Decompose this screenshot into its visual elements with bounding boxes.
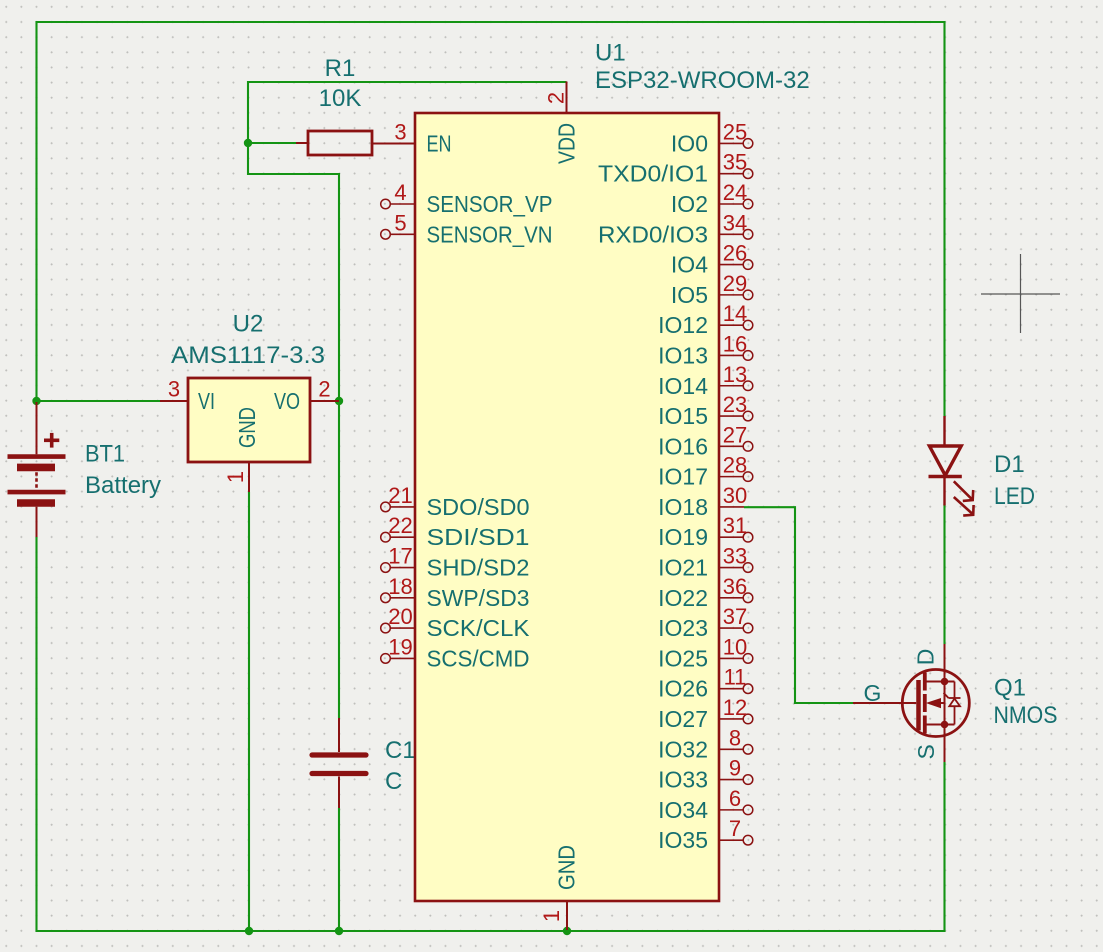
wire right rail to LED anode	[943, 21, 945, 416]
svg-text:10K: 10K	[319, 85, 362, 112]
svg-text:EN: EN	[427, 130, 452, 156]
svg-text:29: 29	[723, 271, 747, 296]
svg-text:VO: VO	[274, 388, 300, 414]
svg-text:IO16: IO16	[658, 433, 708, 459]
svg-text:VI: VI	[198, 388, 215, 414]
wire BT1- to bottom rail	[35, 537, 37, 932]
transistor Q1 NMOS	[853, 644, 969, 762]
svg-text:IO4: IO4	[671, 252, 708, 278]
junction VO node	[335, 397, 343, 405]
svg-text:SWP/SD3: SWP/SD3	[427, 585, 530, 611]
svg-text:IO23: IO23	[658, 615, 708, 641]
wire R1 to VDD (top)	[248, 82, 567, 144]
svg-text:IO2: IO2	[671, 191, 708, 217]
svg-text:12: 12	[723, 695, 747, 720]
svg-text:3: 3	[168, 377, 180, 402]
U1 pin 14 IO12	[658, 301, 753, 338]
svg-text:NMOS: NMOS	[994, 702, 1058, 729]
svg-text:10: 10	[723, 634, 747, 659]
U1 pin 23 IO15	[658, 392, 753, 429]
U1 pin 31 IO19	[658, 513, 753, 550]
svg-text:IO26: IO26	[658, 676, 708, 702]
U1 pin 17 SHD/SD2	[381, 544, 530, 581]
junction BT1+/VI	[32, 397, 40, 405]
ESP32 U1 body	[415, 113, 719, 901]
svg-text:Battery: Battery	[85, 472, 161, 499]
svg-text:18: 18	[388, 574, 412, 599]
svg-text:36: 36	[723, 574, 747, 599]
svg-text:IO17: IO17	[658, 464, 708, 490]
U1 pin 12 IO27	[658, 695, 753, 732]
svg-text:26: 26	[723, 241, 747, 266]
svg-text:19: 19	[388, 634, 412, 659]
svg-text:IO13: IO13	[658, 342, 708, 368]
junction C1 at bottom rail	[335, 927, 343, 935]
svg-text:IO14: IO14	[658, 373, 708, 399]
svg-text:2: 2	[544, 92, 569, 104]
svg-text:Q1: Q1	[994, 674, 1026, 701]
svg-text:24: 24	[723, 180, 747, 205]
svg-text:16: 16	[723, 331, 747, 356]
svg-text:1: 1	[539, 910, 564, 922]
U2 pin 2 VO	[274, 377, 339, 414]
svg-text:IO0: IO0	[671, 130, 708, 156]
svg-text:6: 6	[729, 786, 741, 811]
wire U2 GND to bottom rail	[248, 492, 250, 932]
wire bottom rail	[36, 930, 946, 932]
svg-text:D: D	[913, 649, 939, 666]
svg-text:35: 35	[723, 150, 747, 175]
wire R1 node to U2 VO node	[248, 143, 339, 402]
svg-text:1: 1	[223, 471, 248, 483]
svg-text:SDI/SD1: SDI/SD1	[427, 524, 530, 550]
U1 pin 28 IO17	[658, 453, 753, 490]
svg-text:31: 31	[723, 513, 747, 538]
wire NMOS source to bottom rail	[943, 762, 945, 932]
U1 pin 5 SENSOR_VN	[381, 210, 553, 247]
svg-text:SENSOR_VP: SENSOR_VP	[427, 191, 553, 217]
svg-text:G: G	[864, 680, 882, 706]
svg-text:ESP32-WROOM-32: ESP32-WROOM-32	[595, 67, 810, 94]
U1 pin 16 IO13	[658, 331, 753, 368]
svg-text:33: 33	[723, 544, 747, 569]
U1 pin 19 SCS/CMD	[381, 634, 530, 671]
U1 pin 6 IO34	[658, 786, 753, 823]
svg-text:SCS/CMD: SCS/CMD	[427, 645, 530, 671]
svg-text:RXD0/IO3: RXD0/IO3	[598, 221, 708, 247]
wire LED cathode to NMOS drain	[943, 504, 945, 644]
wire BT1+ to U2 VI	[37, 400, 161, 402]
svg-text:3: 3	[394, 119, 406, 144]
U1 pin 13 IO14	[658, 362, 753, 399]
U1 pin 25 IO0	[671, 119, 753, 156]
junction U2 GND at bottom rail	[245, 927, 253, 935]
svg-text:5: 5	[394, 210, 406, 235]
svg-text:SENSOR_VN: SENSOR_VN	[427, 221, 553, 247]
svg-text:34: 34	[723, 210, 747, 235]
svg-text:IO15: IO15	[658, 403, 708, 429]
svg-text:BT1: BT1	[85, 441, 125, 468]
U1 pin 10 IO25	[658, 634, 753, 671]
svg-text:IO22: IO22	[658, 585, 708, 611]
U1 pin 20 SCK/CLK	[381, 604, 530, 641]
regulator U2 body	[188, 378, 310, 462]
capacitor C1	[312, 718, 366, 808]
U1 pin 34 RXD0/IO3	[598, 210, 753, 247]
svg-text:21: 21	[388, 483, 412, 508]
svg-text:20: 20	[388, 604, 412, 629]
svg-text:17: 17	[388, 544, 412, 569]
U1 pin 27 IO16	[658, 422, 753, 459]
U1 pin 21 SDO/SD0	[381, 483, 530, 520]
svg-text:IO32: IO32	[658, 736, 708, 762]
svg-text:IO12: IO12	[658, 312, 708, 338]
battery BT1	[8, 402, 66, 537]
svg-text:VDD: VDD	[554, 123, 580, 164]
svg-text:IO35: IO35	[658, 827, 708, 853]
svg-text:22: 22	[388, 513, 412, 538]
U1 pin 7 IO35	[658, 816, 753, 853]
svg-text:SHD/SD2: SHD/SD2	[427, 555, 530, 581]
svg-text:U2: U2	[233, 311, 264, 338]
U2 pin 1 GND	[223, 407, 260, 492]
svg-text:S: S	[913, 744, 939, 759]
svg-text:IO5: IO5	[671, 282, 708, 308]
U1 pin 24 IO2	[671, 180, 753, 217]
U1 pin 35 TXD0/IO1	[598, 150, 753, 187]
U1 pin 30 IO18	[658, 483, 747, 520]
svg-text:D1: D1	[994, 451, 1025, 478]
svg-text:27: 27	[723, 422, 747, 447]
U1 pin 26 IO4	[671, 241, 753, 278]
U1 pin 37 IO23	[658, 604, 753, 641]
svg-text:GND: GND	[554, 845, 580, 890]
svg-text:30: 30	[723, 483, 747, 508]
LED D1	[929, 416, 974, 516]
U1 pin 36 IO22	[658, 574, 753, 611]
svg-text:7: 7	[729, 816, 741, 841]
svg-text:IO21: IO21	[658, 555, 708, 581]
svg-text:SDO/SD0: SDO/SD0	[427, 494, 530, 520]
svg-text:AMS1117-3.3: AMS1117-3.3	[171, 342, 325, 369]
U1 pin 3 EN	[394, 119, 451, 156]
svg-text:IO25: IO25	[658, 645, 708, 671]
svg-text:9: 9	[729, 756, 741, 781]
svg-text:28: 28	[723, 453, 747, 478]
U1 pin 1 GND (bottom)	[539, 845, 580, 930]
svg-text:IO34: IO34	[658, 797, 708, 823]
svg-text:23: 23	[723, 392, 747, 417]
U1 pin 18 SWP/SD3	[381, 574, 530, 611]
svg-text:37: 37	[723, 604, 747, 629]
svg-text:8: 8	[729, 725, 741, 750]
svg-text:IO19: IO19	[658, 524, 708, 550]
U1 pin 4 SENSOR_VP	[381, 180, 553, 217]
svg-text:11: 11	[724, 665, 747, 690]
U1 pin 8 IO32	[658, 725, 753, 762]
U1 pin 29 IO5	[671, 271, 753, 308]
svg-text:C: C	[385, 768, 402, 795]
svg-text:IO18: IO18	[658, 494, 708, 520]
U1 pin 11 IO26	[658, 665, 753, 702]
U1 pin 33 IO21	[658, 544, 753, 581]
svg-text:14: 14	[723, 301, 747, 326]
U1 pin 2 VDD (top)	[544, 82, 580, 165]
crosshair marker	[981, 254, 1060, 333]
wire U2 VO to C1 top	[338, 401, 340, 718]
wire R1 left lead net	[248, 142, 296, 144]
svg-text:4: 4	[394, 180, 406, 205]
wire left rail (BT1+ to top)	[35, 21, 37, 402]
wire C1 bottom to bottom rail	[338, 808, 340, 932]
svg-text:IO33: IO33	[658, 767, 708, 793]
U2 pin 3 VI	[160, 377, 215, 414]
junction U1 GND at bottom rail	[563, 927, 571, 935]
svg-text:GND: GND	[234, 407, 260, 448]
svg-text:13: 13	[723, 362, 747, 387]
U1 pin 22 SDI/SD1	[381, 513, 530, 550]
wire top rail	[36, 21, 946, 23]
svg-text:SCK/CLK: SCK/CLK	[427, 615, 531, 641]
svg-text:TXD0/IO1: TXD0/IO1	[598, 161, 708, 187]
wire IO18 to NMOS gate	[744, 507, 853, 703]
resistor R1	[296, 131, 415, 155]
junction R1/EN net	[244, 139, 252, 147]
svg-text:C1: C1	[385, 737, 416, 764]
svg-text:2: 2	[318, 377, 330, 402]
svg-text:LED: LED	[994, 483, 1035, 510]
U1 pin 9 IO33	[658, 756, 753, 793]
svg-text:R1: R1	[325, 55, 356, 82]
svg-text:25: 25	[723, 119, 747, 144]
svg-text:IO27: IO27	[658, 706, 708, 732]
svg-text:U1: U1	[595, 40, 626, 67]
